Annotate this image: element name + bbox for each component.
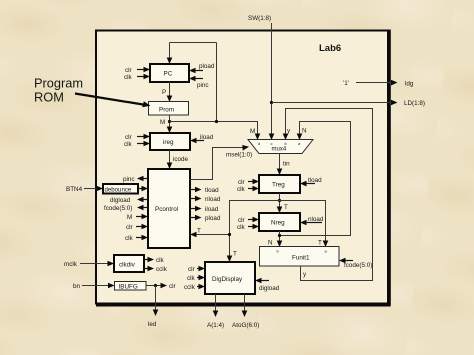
wire icode from ireg to Pcontrol — [167, 150, 189, 169]
svg-text:pinc: pinc — [197, 82, 209, 89]
svg-text:d: d — [258, 141, 260, 146]
Pcontrol iload output — [190, 206, 219, 213]
svg-text:cclk: cclk — [156, 266, 168, 273]
svg-text:M: M — [127, 214, 132, 221]
svg-text:mux4: mux4 — [272, 147, 287, 153]
label M at mux d input — [250, 128, 255, 135]
svg-text:AtoG(6:0): AtoG(6:0) — [232, 322, 259, 329]
Treg tload input stub — [300, 177, 322, 187]
svg-text:clr: clr — [188, 266, 195, 273]
svg-text:led: led — [148, 321, 157, 328]
svg-text:clk: clk — [124, 74, 133, 81]
Nreg nload input stub — [300, 216, 324, 225]
wire A(1:4) output — [207, 294, 224, 329]
Treg clr input — [238, 179, 259, 186]
svg-text:Treg: Treg — [272, 182, 285, 189]
Pcontrol digload output — [110, 197, 148, 204]
svg-text:IBUFG: IBUFG — [119, 284, 138, 291]
PC clr input — [125, 67, 150, 74]
svg-text:clr: clr — [125, 67, 132, 74]
register PC — [150, 64, 189, 82]
svg-text:Funit1: Funit1 — [292, 255, 310, 262]
svg-text:clk: clk — [237, 186, 246, 193]
svg-text:msel(1:0): msel(1:0) — [226, 152, 252, 159]
svg-text:tload: tload — [308, 177, 322, 184]
svg-text:clr: clr — [238, 179, 245, 186]
callout arrow to Prom — [75, 94, 151, 108]
svg-text:P: P — [162, 89, 166, 96]
Pcontrol M input — [127, 214, 148, 221]
Pcontrol nload output — [190, 196, 221, 203]
svg-text:DigDisplay: DigDisplay — [212, 276, 243, 283]
svg-text:digload: digload — [259, 285, 280, 292]
wire msel(1:0) from Pcontrol to mux — [190, 145, 252, 180]
wire T to Pcontrol and DigDisplay — [227, 201, 280, 263]
wire P from PC to Prom — [162, 82, 172, 102]
wire tin from mux to Treg — [277, 154, 290, 176]
label y at Funit1 output — [303, 271, 307, 278]
clkdiv clk output — [144, 257, 165, 264]
register Treg — [259, 175, 300, 193]
svg-text:Program: Program — [34, 76, 83, 91]
svg-text:c: c — [271, 141, 273, 146]
wire N from Nreg to Funit1 — [268, 231, 282, 247]
DigDisplay cclk input — [184, 284, 205, 291]
multiplexer mux4 — [248, 140, 313, 154]
DigDisplay clk input — [187, 275, 205, 282]
wire SW(1:8) vertical — [248, 15, 274, 140]
wire M-loop right vertical — [216, 43, 218, 122]
node T junction — [278, 199, 281, 202]
svg-text:iload: iload — [205, 206, 219, 213]
svg-text:fcode(5:0): fcode(5:0) — [344, 262, 372, 269]
Nreg clr input — [238, 217, 259, 224]
svg-text:T: T — [318, 240, 322, 247]
node N junction — [278, 234, 281, 237]
Treg clk input — [237, 186, 259, 193]
wire y feedback into mux b — [283, 109, 373, 281]
svg-text:fcode(5:0): fcode(5:0) — [104, 205, 132, 212]
constant '1' to ldg — [343, 80, 414, 88]
label Lab6 — [319, 43, 341, 54]
svg-text:N: N — [302, 128, 307, 135]
wire M-loop top horizontal into PC — [170, 42, 217, 44]
svg-text:PC: PC — [164, 71, 173, 78]
svg-text:T: T — [233, 251, 237, 258]
node T junction at x229 — [228, 233, 231, 236]
debounce module — [103, 184, 138, 194]
svg-text:T: T — [284, 204, 288, 211]
svg-text:Prom: Prom — [159, 107, 174, 114]
svg-text:clr: clr — [238, 217, 245, 224]
svg-text:A(1:4): A(1:4) — [207, 322, 224, 329]
node M junction at Prom output — [168, 120, 171, 123]
svg-text:'1': '1' — [343, 80, 349, 87]
Pcontrol pinc output — [123, 176, 148, 183]
svg-text:clr: clr — [125, 134, 132, 141]
svg-text:icode: icode — [173, 156, 189, 163]
svg-text:nload: nload — [205, 196, 221, 203]
callout text Program ROM — [34, 76, 83, 105]
display DigDisplay — [205, 262, 255, 294]
memory Prom — [149, 102, 189, 116]
ireg iload input stub — [190, 134, 214, 143]
svg-text:T: T — [197, 228, 201, 235]
svg-text:clk: clk — [124, 141, 133, 148]
wire T from Treg to Nreg — [277, 193, 288, 213]
svg-text:M: M — [250, 128, 255, 135]
register ireg — [150, 133, 190, 150]
wire IBUFG to clr — [146, 283, 176, 290]
wire BTN4 into debounce — [66, 186, 103, 193]
node clk junction — [154, 284, 157, 287]
wire AtoG(6:0) output — [232, 294, 259, 329]
PC clk input — [124, 74, 150, 81]
wire T to Funit1 a input — [280, 201, 329, 248]
ALU Funit1 — [260, 247, 340, 267]
Pcontrol pload output — [190, 215, 221, 222]
Nreg clk input — [237, 224, 259, 231]
wire debounce to Pcontrol — [138, 186, 148, 192]
PC pload input stub — [189, 63, 215, 73]
clkdiv cclk output — [144, 266, 168, 273]
Pcontrol clr input — [126, 224, 148, 231]
wire LD(1:8) to right edge — [272, 100, 426, 107]
wire led output — [148, 286, 158, 329]
svg-text:Nreg: Nreg — [271, 220, 285, 227]
Funit1 fcode input stub — [339, 258, 372, 269]
ireg clk input — [124, 141, 150, 148]
PC pinc input stub — [189, 76, 209, 89]
svg-text:N: N — [268, 240, 273, 247]
svg-text:mclk: mclk — [64, 261, 78, 268]
divider clkdiv — [114, 255, 144, 272]
svg-text:clr: clr — [169, 283, 176, 290]
svg-text:M: M — [160, 119, 165, 126]
svg-text:clk: clk — [237, 224, 246, 231]
svg-text:ROM: ROM — [34, 90, 64, 105]
svg-text:digload: digload — [110, 197, 131, 204]
controller Pcontrol — [148, 169, 190, 248]
wire into PC top — [167, 43, 173, 65]
svg-text:clk: clk — [187, 275, 196, 282]
svg-text:bn: bn — [73, 283, 81, 290]
wire M from Prom to ireg — [160, 115, 172, 133]
svg-text:clk: clk — [125, 235, 134, 242]
buffer IBUFG — [115, 282, 147, 291]
svg-text:pload: pload — [199, 63, 215, 70]
svg-text:BTN4: BTN4 — [66, 186, 83, 193]
svg-text:ldg: ldg — [405, 81, 414, 88]
ireg clr input — [125, 134, 150, 141]
svg-text:Pcontrol: Pcontrol — [155, 206, 178, 213]
svg-text:ireg: ireg — [163, 139, 174, 146]
svg-text:nload: nload — [308, 216, 324, 223]
DigDisplay digload input stub — [255, 278, 280, 292]
register Nreg — [259, 213, 300, 231]
svg-text:tload: tload — [205, 187, 219, 194]
svg-text:pinc: pinc — [123, 176, 135, 183]
svg-text:cclk: cclk — [184, 284, 196, 291]
svg-text:LD(1:8): LD(1:8) — [404, 100, 425, 107]
outer module box Lab6 — [96, 30, 391, 306]
wire bn into IBUFG — [73, 283, 115, 290]
svg-text:pload: pload — [205, 215, 221, 222]
svg-text:SW(1:8): SW(1:8) — [248, 15, 271, 22]
node M junction at x216 — [215, 120, 218, 123]
wire T into Pcontrol — [190, 228, 230, 238]
svg-text:tin: tin — [283, 161, 290, 168]
svg-text:clkdiv: clkdiv — [119, 262, 136, 269]
Pcontrol tload output — [190, 187, 219, 194]
svg-text:Lab6: Lab6 — [319, 43, 341, 54]
DigDisplay clr input — [188, 266, 205, 273]
wire mclk into clkdiv — [64, 261, 114, 268]
wire M bus horizontal to mux — [170, 122, 261, 141]
svg-text:debounce: debounce — [105, 187, 132, 194]
svg-text:clk: clk — [156, 257, 165, 264]
wire N feedback into mux a — [280, 122, 351, 236]
Pcontrol fcode output — [104, 205, 148, 212]
svg-text:iload: iload — [200, 134, 214, 141]
node SW/LD junction — [270, 101, 273, 104]
svg-text:clr: clr — [126, 224, 133, 231]
Pcontrol clk input — [125, 235, 148, 242]
